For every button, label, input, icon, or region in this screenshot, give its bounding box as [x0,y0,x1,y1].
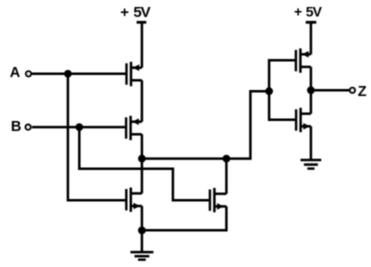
node ground junction [138,227,146,235]
wire inverter input to Q6 gate [269,91,296,120]
node Q4 drain junction [223,155,231,163]
power rail bar VDD left [137,21,147,24]
node inverter input [265,87,273,95]
node A junction [64,70,72,78]
power rail bar VDD right [306,21,317,24]
transistor Q6 NMOS inverter [296,108,311,132]
node NOR output [138,155,146,163]
wire Q4 drain vertical [225,159,228,194]
wire Q4 source return to ground [142,206,227,230]
svg-text:A: A [10,65,21,81]
wire inverter input to Q5 gate [269,60,296,91]
transistor Q3 NMOS input A [126,188,142,212]
wire B tap to Q4 gate [79,127,210,200]
svg-text:+5V: +5V [294,3,323,19]
wire Q5 drain to output node [310,67,313,90]
input terminal B [26,125,31,130]
wire A tap to Q3 gate [68,74,126,201]
wire NOR output to Q3 drain [141,159,144,194]
svg-text:Z: Z [358,84,367,100]
input terminal A [26,71,31,76]
node inverter output [307,86,315,94]
wire input A to Q1 gate [32,73,127,76]
wire NOR output row [142,91,269,158]
wire output node to Q6 drain [310,90,313,113]
transistor Q1 PMOS input A [127,62,142,86]
wire input B to Q2 gate [32,126,126,129]
svg-text:+5V: +5V [120,4,150,21]
wire Q3 source to ground junction [141,206,144,230]
wire Q1 drain to Q2 source [141,80,144,121]
transistor Q4 NMOS input B [210,188,227,212]
svg-text:B: B [11,119,21,135]
wire Q6 source to ground right [310,126,313,159]
wire output node to terminal Z [311,89,349,92]
wire VDD left to Q1 source [141,22,144,67]
ground symbol right [301,160,322,169]
wire to ground left [141,230,144,251]
ground symbol left [130,252,153,260]
node B junction [75,123,83,131]
transistor Q2 PMOS input B [126,116,142,140]
output terminal Z [350,88,355,93]
wire Q2 drain to output node [141,134,144,158]
wire VDD right to Q5 source [310,22,313,54]
transistor Q5 PMOS inverter [296,48,311,72]
